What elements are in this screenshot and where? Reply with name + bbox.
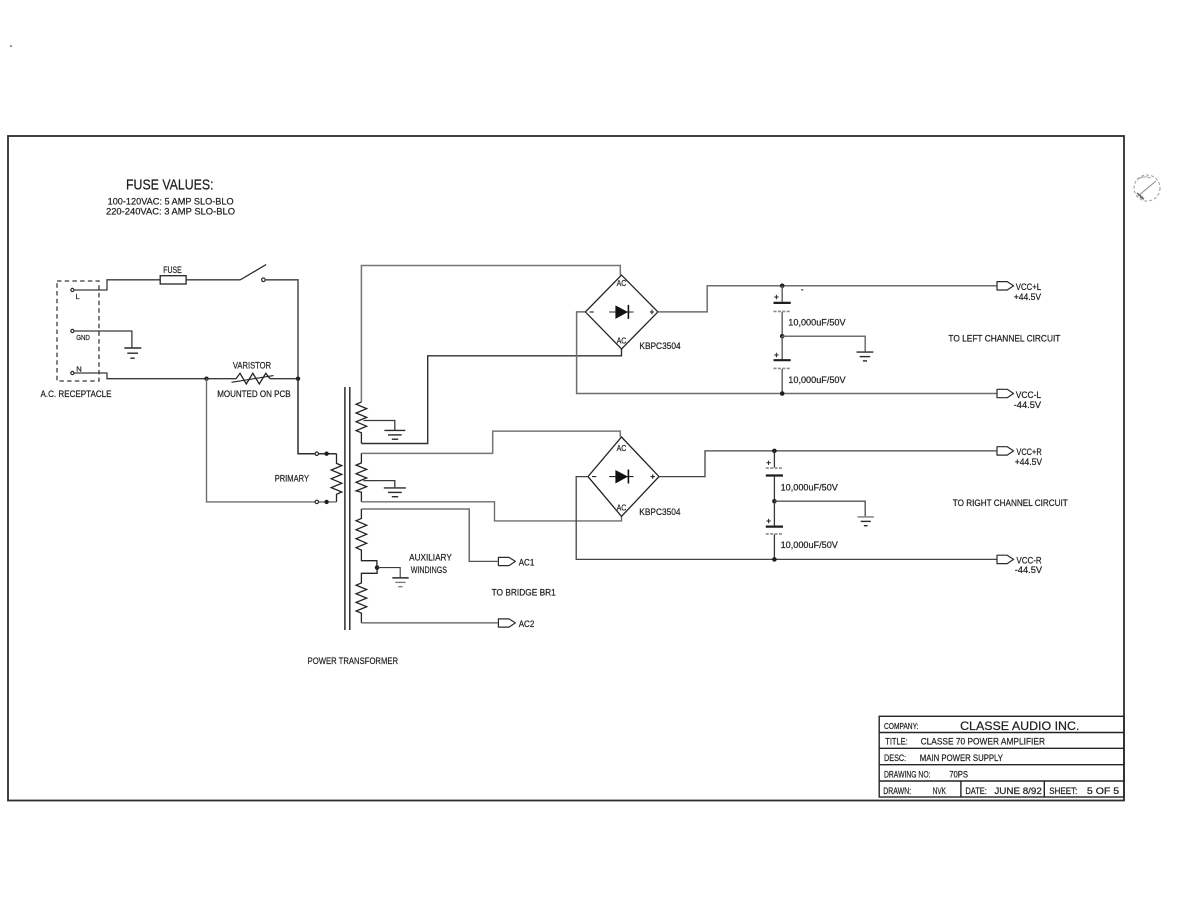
svg-text:PRIMARY: PRIMARY [275, 474, 310, 485]
ground (S2 tap earth) [384, 488, 406, 497]
wire L to fuse [74, 280, 160, 290]
wire switch to node A [265, 280, 298, 379]
svg-text:WINDINGS: WINDINGS [411, 565, 447, 576]
svg-text:AC: AC [617, 443, 627, 453]
wire BR-R plus to node VCC+R [659, 451, 997, 477]
terminal N [71, 371, 74, 374]
wire node B down to primary bottom [207, 379, 337, 502]
connector VCC-L [997, 389, 1014, 397]
bridge BR-L pin minus [590, 311, 594, 313]
svg-text:MOUNTED ON PCB: MOUNTED ON PCB [217, 389, 290, 400]
primary dot top [324, 452, 328, 456]
connector VCC-R [997, 555, 1014, 563]
bridge BR-L internal diode [609, 311, 633, 313]
capacitor C4 10,000uF/50V [773, 501, 775, 526]
svg-text:KBPC3504: KBPC3504 [639, 341, 681, 352]
svg-text:TITLE:: TITLE: [885, 735, 907, 746]
bridge rectifier BR-R body [588, 437, 659, 516]
switch S1 blade [240, 265, 266, 280]
svg-text:FUSE: FUSE [163, 265, 182, 275]
ground (C1/C2 midpoint earth) [857, 352, 874, 361]
bridge BR-R pin minus [592, 476, 596, 478]
stamp mark top right [1134, 175, 1160, 201]
svg-text:AC: AC [617, 335, 627, 345]
border frame [8, 136, 1124, 801]
wire midpoint to earth [774, 501, 865, 516]
svg-text:NVK: NVK [933, 785, 947, 796]
svg-text:CLASSE AUDIO INC.: CLASSE AUDIO INC. [960, 719, 1079, 733]
svg-text:N: N [76, 365, 81, 374]
ground (C3/C4 midpoint earth) [858, 517, 874, 526]
wire aux A2 to AC2 [361, 622, 497, 624]
svg-text:L: L [76, 292, 80, 301]
wire BR-L plus to node VCC+L [658, 286, 997, 312]
ground (S1 tap earth) [384, 430, 405, 439]
wire secondary S1 top to bridge BR-L [361, 266, 620, 403]
wire BR-L minus to node VCC-L [577, 312, 997, 394]
wire GND to earth [74, 331, 132, 347]
svg-text:MAIN POWER SUPPLY: MAIN POWER SUPPLY [920, 752, 1004, 763]
transformer T1 auxiliary winding A1 [356, 509, 377, 566]
wire secondary S2 top to bridge BR-R [361, 431, 620, 453]
svg-text:+44.5V: +44.5V [1015, 457, 1043, 468]
svg-text:A.C. RECEPTACLE: A.C. RECEPTACLE [41, 389, 112, 400]
svg-text:FUSE VALUES:: FUSE VALUES: [126, 178, 214, 194]
junction C3/C4 midpoint [772, 499, 777, 504]
wire aux winding top to AC1 [361, 509, 497, 561]
transformer T1 secondary winding S2 [356, 453, 367, 501]
primary dot bottom [324, 500, 328, 504]
terminal GND [71, 329, 74, 332]
svg-text:TO LEFT CHANNEL CIRCUIT: TO LEFT CHANNEL CIRCUIT [948, 333, 1060, 344]
terminal L [71, 288, 74, 291]
junction C1/C2 midpoint [780, 334, 785, 339]
svg-text:AC: AC [617, 503, 627, 513]
svg-text:5 OF 5: 5 OF 5 [1087, 785, 1119, 796]
svg-text:-44.5V: -44.5V [1014, 400, 1042, 411]
svg-text:10,000uF/50V: 10,000uF/50V [788, 318, 846, 329]
switch S1 contact [262, 278, 266, 282]
svg-text:10,000uF/50V: 10,000uF/50V [781, 482, 839, 493]
svg-text:10,000uF/50V: 10,000uF/50V [788, 375, 846, 386]
wire S1 center tap [364, 421, 395, 430]
wire fuse to switch [186, 279, 240, 281]
wire node B to varistor [207, 378, 237, 380]
svg-text:DRAWING NO:: DRAWING NO: [884, 768, 931, 779]
svg-text:DESC:: DESC: [884, 752, 906, 763]
bridge BR-L pin plus [650, 310, 654, 314]
connector AC1 [498, 557, 515, 565]
svg-text:TO RIGHT CHANNEL CIRCUIT: TO RIGHT CHANNEL CIRCUIT [953, 498, 1068, 509]
junction VCC-R / C4 [772, 557, 777, 562]
connector AC2 [498, 619, 515, 627]
svg-text:AUXILIARY: AUXILIARY [409, 553, 452, 564]
svg-text:-44.5V: -44.5V [1015, 565, 1043, 576]
wire varistor to node A [270, 378, 298, 380]
svg-text:GND: GND [76, 333, 90, 342]
svg-text:AC: AC [617, 278, 627, 288]
junction aux center tap [375, 565, 380, 570]
bridge BR-R internal diode [609, 476, 633, 478]
primary pin circle bottom [315, 500, 318, 503]
junction node B [204, 377, 208, 381]
wire midpoint to earth [782, 336, 865, 351]
svg-text:POWER TRANSFORMER: POWER TRANSFORMER [308, 656, 399, 667]
svg-text:70PS: 70PS [949, 768, 968, 779]
svg-text:VARISTOR: VARISTOR [233, 361, 271, 372]
wire S2 center tap [364, 481, 395, 488]
svg-text:KBPC3504: KBPC3504 [639, 507, 681, 518]
svg-text:10,000uF/50V: 10,000uF/50V [781, 540, 839, 551]
capacitor C1 10,000uF/50V [781, 286, 783, 303]
speck near cap C1 [801, 289, 803, 291]
junction VCC-L / C2 [780, 391, 785, 396]
junction node A [296, 377, 300, 381]
wire S1 bottom to bridge BR-L AC [361, 349, 621, 444]
transformer T1 core [344, 387, 346, 630]
svg-text:DATE:: DATE: [965, 785, 987, 796]
svg-text:220-240VAC: 3 AMP SLO-BLO: 220-240VAC: 3 AMP SLO-BLO [106, 207, 235, 218]
transformer T1 auxiliary winding A2 [356, 570, 377, 623]
speck top left [10, 45, 12, 47]
svg-text:+44.5V: +44.5V [1014, 292, 1042, 303]
svg-text:AC1: AC1 [519, 557, 535, 568]
svg-text:SHEET:: SHEET: [1049, 785, 1077, 796]
connector VCC+R [997, 447, 1014, 455]
capacitor C2 10,000uF/50V [781, 336, 783, 359]
svg-text:AC2: AC2 [519, 619, 535, 630]
svg-text:CLASSE 70 POWER AMPLIFIER: CLASSE 70 POWER AMPLIFIER [921, 735, 1046, 746]
bridge BR-R pin plus [651, 474, 655, 478]
connector VCC+L [997, 282, 1014, 290]
wire aux tap to earth [377, 568, 400, 578]
svg-text:JUNE 8/92: JUNE 8/92 [994, 785, 1041, 796]
primary pin circle top [315, 452, 318, 455]
varistor RV1 [236, 373, 270, 384]
wire node A down to primary top [298, 379, 337, 454]
wire S2 bottom to bridge BR-R AC [361, 502, 621, 521]
wire BR-R minus to node VCC-R [576, 477, 997, 560]
bridge rectifier BR-L body [585, 275, 658, 349]
wire N to node B [74, 373, 207, 379]
svg-text:DRAWN:: DRAWN: [883, 785, 911, 796]
fuse F1 [160, 276, 186, 284]
junction VCC+R / C3 [772, 449, 777, 454]
ground (aux tap earth) [392, 578, 408, 587]
title block [879, 716, 1124, 797]
capacitor C3 10,000uF/50V [773, 451, 775, 468]
svg-text:TO BRIDGE BR1: TO BRIDGE BR1 [492, 587, 556, 598]
A.C. receptacle J1 dashed outline [57, 281, 99, 381]
transformer T1 secondary winding S1 [356, 402, 367, 444]
junction VCC+L / C1 [780, 284, 785, 289]
transformer T1 primary winding [331, 454, 342, 502]
ground (AC receptacle earth) [124, 348, 141, 358]
svg-text:COMPANY:: COMPANY: [884, 722, 919, 731]
